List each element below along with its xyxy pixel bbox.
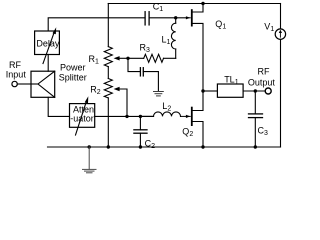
resistor R3 — [128, 54, 176, 62]
wire: output node down to C3 — [254, 91, 256, 114]
node B junction (Q1 source / Q2 drain / TL1) — [201, 89, 204, 92]
RF output terminal — [265, 88, 271, 94]
svg-text:Output: Output — [248, 78, 276, 88]
svg-text:Input: Input — [6, 70, 27, 80]
wire: ground rail (bottom) — [48, 146, 281, 148]
transistor Q1 — [186, 4, 203, 92]
node A junction (C1 / L1 / Q1 gate) — [174, 16, 177, 19]
wire: attenuator output to L2 (crosses R2 leg, junctions at R2 wiper and C2) — [95, 115, 154, 117]
svg-text:RF: RF — [9, 60, 21, 70]
transistor Q2 — [181, 91, 204, 147]
wire: RF input to splitter — [17, 83, 31, 85]
attenuator block — [70, 104, 95, 128]
delay block — [35, 31, 60, 55]
capacitor C1 — [145, 12, 149, 25]
inductor L2 — [140, 112, 180, 117]
resistor R2 (potentiometer) — [104, 79, 112, 148]
wire: splitter bottom port to attenuator — [48, 97, 69, 116]
power splitter — [31, 71, 55, 97]
junction: C2 bottom on rail — [139, 145, 142, 148]
RF input terminal — [12, 81, 17, 86]
junction: C3 bottom on rail — [254, 145, 257, 148]
inductor L1 — [171, 18, 175, 59]
capacitor C3 — [249, 114, 263, 118]
junction: output node — [254, 89, 257, 92]
wire: delay line output to C1 (y=18) — [48, 18, 145, 31]
svg-text:RF: RF — [258, 67, 270, 77]
junction: C2 top on attenuator wire — [139, 115, 142, 118]
wire: R1 wiper node down to bypass capacitor — [128, 58, 140, 71]
junction: Q2 source on rail — [201, 145, 204, 148]
junction: Q1 drain on supply rail — [201, 2, 204, 5]
wire: C2 to ground rail — [139, 133, 141, 147]
bypass capacitor (under R3) — [140, 68, 143, 76]
delay variable arrow — [43, 27, 56, 63]
junction: R2 bottom on rail — [107, 145, 110, 148]
wire: V1 bottom down right side to ground rail — [280, 39, 282, 147]
wire: C1 to Q1 gate (node A) — [149, 17, 186, 19]
attenuator variable arrow — [76, 96, 89, 135]
junction: ground stem on rail — [88, 145, 91, 148]
transmission line TL1 — [217, 84, 243, 97]
ground (bottom left) — [83, 147, 97, 173]
voltage source V1 — [275, 29, 285, 39]
resistor R1 (potentiometer) — [104, 4, 112, 79]
svg-text:Delay: Delay — [36, 39, 60, 49]
wire: top supply rail from R1 top to V1 branch — [108, 3, 280, 5]
wire: C3 to ground rail — [254, 118, 256, 147]
wire: V1 branch top (rail corner down to V1) — [280, 4, 282, 29]
wire: TL1 to output junction — [243, 90, 265, 92]
node: R1 wiper / R3 junction — [126, 57, 129, 60]
R2 wiper arrow and wire to attenuator output — [114, 87, 127, 117]
ground (mid, under R3 cap) — [154, 92, 164, 96]
wire: node B to TL1 — [203, 90, 217, 92]
svg-text:Power: Power — [60, 62, 86, 72]
capacitor C2 — [134, 130, 147, 133]
wire: bypass cap to ground — [143, 72, 158, 92]
capacitor C2 top lead — [139, 116, 141, 129]
junction: R2 wiper on attenuator wire — [125, 115, 128, 118]
R1 wiper arrow — [114, 56, 128, 60]
wire: delay bottom to splitter top port — [47, 55, 49, 72]
svg-text:Splitter: Splitter — [59, 73, 87, 83]
